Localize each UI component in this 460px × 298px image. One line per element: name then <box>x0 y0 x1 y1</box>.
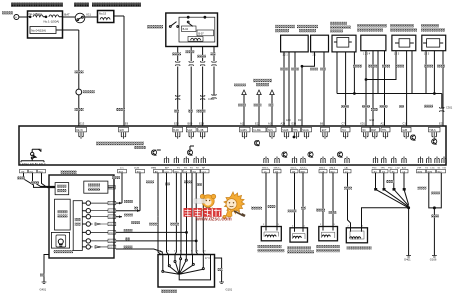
svg-text:SCS: SCS <box>268 130 273 132</box>
ground wire right <box>215 258 222 282</box>
rows 5,6,7 to switch area <box>116 232 196 254</box>
wire color labels <box>124 200 133 203</box>
right pair to ground <box>429 173 442 256</box>
ignition switch circle <box>75 13 85 23</box>
svg-text:No.1-1(50A): No.1-1(50A) <box>44 19 60 23</box>
cluster box <box>49 175 114 258</box>
fuse box <box>28 11 63 38</box>
svg-text:G166: G166 <box>430 257 437 261</box>
lamp row2 joins x140 <box>116 210 140 212</box>
pin numbers above solenoid A <box>263 224 364 227</box>
svg-text:B-04: B-04 <box>183 28 189 31</box>
connector row 1 <box>176 61 180 66</box>
svg-text:E45: E45 <box>120 130 125 132</box>
solenoid A box <box>261 227 281 241</box>
svg-text:E22: E22 <box>255 121 260 125</box>
bundle labels <box>418 187 427 190</box>
svg-text:ECT: ECT <box>322 130 327 132</box>
wire color labels <box>251 207 262 210</box>
sensor S6 box with inner element <box>422 35 446 51</box>
wire continues to PCM <box>78 95 80 126</box>
gear position switch box <box>158 255 215 288</box>
wire fusebox to ignition <box>63 16 76 18</box>
S1 wires down to PCM <box>284 52 295 126</box>
label: battery <box>2 11 13 14</box>
relay output wires <box>178 47 214 62</box>
fuse No.1 <box>29 16 31 18</box>
svg-text:SG1G: SG1G <box>302 130 309 132</box>
black/red label <box>112 176 120 179</box>
S2 wire with jog to x=302 <box>302 52 315 126</box>
wire color labels <box>17 177 25 180</box>
svg-text:TMLS: TMLS <box>429 130 436 132</box>
bottom edge socket/pin label rows <box>120 167 447 170</box>
relay coil boxes <box>182 26 197 32</box>
wire color labels under sensors <box>280 68 288 71</box>
svg-text:E1B: E1B <box>199 121 204 125</box>
sensor S5 box with inner element <box>392 35 416 51</box>
common wire inside <box>179 255 210 280</box>
svg-text:A15: A15 <box>240 121 245 125</box>
svg-text:C301: C301 <box>446 106 453 110</box>
connector row 2 (C443) <box>176 95 180 100</box>
power circuit tall box <box>55 199 71 230</box>
svg-text:G401: G401 <box>404 257 411 261</box>
indicator lamp circles <box>86 201 90 205</box>
solenoid wires from PCM <box>266 173 333 228</box>
C301 connector label <box>440 107 444 112</box>
to-other-circuit arrows <box>234 84 246 87</box>
svg-text:No.04(15A): No.04(15A) <box>31 28 46 32</box>
mascot 1 (monkey) <box>200 194 215 211</box>
svg-text:1 2 3 4: 1 2 3 4 <box>363 53 371 55</box>
verticals from PCM bottom to switch <box>167 173 205 255</box>
internal transistors <box>151 150 156 156</box>
solenoid D box <box>346 228 367 243</box>
S6 wires <box>426 51 443 126</box>
cluster label <box>61 170 77 174</box>
wire battery to fuse box <box>19 16 28 18</box>
svg-text:E3J: E3J <box>174 121 179 125</box>
sensor S1 box <box>281 35 309 52</box>
S4 wires <box>366 51 385 126</box>
S2 wire 2 <box>323 52 325 126</box>
lamp to edge wires with D pin boxes <box>91 201 116 249</box>
relay box <box>166 13 218 47</box>
wires from E9/E21/E24 pins into cluster input <box>24 173 56 188</box>
wire color label white/green <box>75 71 84 74</box>
top edge socket name boxes <box>76 127 441 132</box>
wire color labels above PCM right <box>341 105 349 108</box>
svg-text:TH1: TH1 <box>382 130 387 132</box>
input circuit box <box>55 183 69 195</box>
svg-text:GABS: GABS <box>240 129 247 132</box>
svg-text:L 0B: L 0B <box>199 130 204 132</box>
solenoid B box <box>290 228 308 242</box>
wire ignition to small fuse box <box>85 16 98 18</box>
svg-text:XD1: XD1 <box>360 121 366 125</box>
svg-text:E13: E13 <box>80 121 85 125</box>
svg-text:NC: NC <box>363 130 367 132</box>
svg-text:D2: D2 <box>298 118 302 122</box>
sensor S1 TPS label <box>275 25 295 28</box>
svg-text:3 2 1: 3 2 1 <box>283 54 289 56</box>
svg-text:MAP: MAP <box>371 129 376 132</box>
bottom interior sockets (solenoid drivers) <box>164 152 446 163</box>
mascot 2 (sun lion with telescope) <box>223 192 245 219</box>
three verticals from PCM pins E1B E55 A11 <box>122 173 158 217</box>
relay inner frame <box>179 17 215 42</box>
label: ignition switch <box>74 3 89 7</box>
wire labels yellow/green etc <box>172 53 181 56</box>
solenoid C box <box>319 227 338 241</box>
svg-text:BAT: BAT <box>64 13 70 17</box>
top right box (fuel solenoid) <box>84 181 108 193</box>
wire color label black/yellow <box>116 108 125 111</box>
svg-text:No.1(80A): No.1(80A) <box>29 12 42 16</box>
wire labels under arrows <box>238 104 246 107</box>
label: fuse (dash lower box) <box>92 3 141 7</box>
svg-text:No.15: No.15 <box>99 11 107 15</box>
wire from No.04 out right then down <box>56 30 79 89</box>
small fuse box (15A) <box>98 11 114 23</box>
sensor S2 box <box>311 35 329 52</box>
sensor S5 label <box>390 24 414 27</box>
sensor S6 label <box>421 24 439 27</box>
svg-text:17 3: 17 3 <box>205 258 210 260</box>
svg-text:TPS: TPS <box>293 130 298 132</box>
svg-text:www.dzsc.com: www.dzsc.com <box>195 217 232 223</box>
wire small box right then down <box>114 16 124 126</box>
S3 wires <box>337 52 354 126</box>
fuse No.1-1 <box>49 15 59 17</box>
svg-text:C1B: C1B <box>320 171 325 173</box>
svg-text:1 2 3: 1 2 3 <box>394 53 400 55</box>
svg-text:B1M: B1M <box>418 171 423 173</box>
sensor S4 label <box>357 24 387 27</box>
wire labels top <box>149 223 158 226</box>
svg-text:C7: C7 <box>342 121 346 125</box>
svg-text:+: + <box>15 16 17 20</box>
lamp row3 short <box>116 216 122 218</box>
wire labels row <box>174 110 179 113</box>
svg-text:LEDA LED B LED C: LEDA LED B LED C <box>20 162 45 166</box>
svg-text:S-EF: S-EF <box>187 130 193 132</box>
svg-text:A19: A19 <box>268 121 273 125</box>
shift indicator sub-box with bulb <box>51 232 69 248</box>
fuse No.04 sub-box <box>30 27 56 34</box>
sensor S2 label <box>297 25 318 28</box>
cluster ground wire <box>44 255 49 283</box>
svg-text:A29: A29 <box>281 121 286 125</box>
sensor S3 box with inner element <box>332 35 356 52</box>
S5 wires: tie to 366 <box>366 51 396 80</box>
switch label <box>161 290 177 293</box>
drive circuit tall box <box>73 201 82 251</box>
svg-text:G401: G401 <box>40 288 47 292</box>
svg-text:C443: C443 <box>208 97 215 101</box>
svg-text:A30: A30 <box>286 118 291 122</box>
svg-text:SG28: SG28 <box>282 130 289 132</box>
sensor S3 label <box>330 22 347 25</box>
svg-text:E9: E9 <box>125 121 129 125</box>
svg-text:DE IN: DE IN <box>76 130 83 132</box>
LED driver block <box>32 149 40 152</box>
brake switch circle on left wire <box>76 89 82 95</box>
svg-text:K-LINE: K-LINE <box>253 130 261 132</box>
pin numbers above switch <box>160 251 206 253</box>
svg-text:E1B: E1B <box>119 171 124 173</box>
svg-text:C15: C15 <box>403 121 408 125</box>
label: engine lower fuse/relay box header <box>11 3 63 7</box>
ground bus horizontal <box>337 94 442 109</box>
wire color label white/green 2 <box>75 108 84 111</box>
sockets under name boxes <box>79 132 83 139</box>
junction to solenoid D right pin <box>362 208 409 256</box>
right bundle: four wires converge <box>376 173 405 189</box>
red text 维库一下 <box>184 208 222 217</box>
PCM top pin labels <box>240 118 444 126</box>
svg-text:E19: E19 <box>370 118 375 122</box>
svg-text:G2B: G2B <box>402 130 407 132</box>
battery terminal circle <box>14 15 19 20</box>
switch contacts fan <box>162 270 164 272</box>
svg-text:A11: A11 <box>381 121 386 125</box>
main relay label <box>147 25 163 29</box>
PCM label <box>96 142 144 146</box>
svg-text:G101: G101 <box>226 288 233 292</box>
sensor S4 box <box>361 35 386 51</box>
relay contacts <box>169 26 171 28</box>
svg-text:B-0R: B-0R <box>173 130 179 132</box>
svg-text:1 2 3: 1 2 3 <box>424 53 430 55</box>
lamp row1 joins x122 <box>116 202 122 204</box>
svg-text:B-07: B-07 <box>198 32 204 35</box>
solenoid D left wire <box>348 173 351 228</box>
svg-text:H-C: H-C <box>342 130 346 132</box>
svg-text:B09: B09 <box>188 121 193 125</box>
D8 socket on right edge <box>108 186 114 188</box>
PCM outline <box>19 126 446 165</box>
svg-text:E30: E30 <box>292 121 297 125</box>
solenoid A label <box>258 245 282 248</box>
svg-text:E25: E25 <box>439 121 444 125</box>
svg-text:IG1: IG1 <box>86 13 91 17</box>
